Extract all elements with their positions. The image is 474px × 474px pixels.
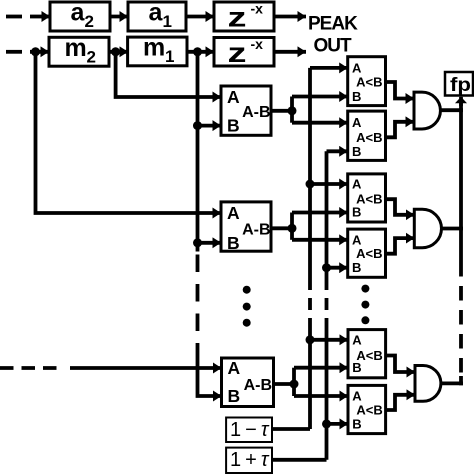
svg-text:-x: -x bbox=[251, 1, 264, 17]
svg-text:A<B: A<B bbox=[356, 348, 382, 363]
svg-text:A<B: A<B bbox=[356, 246, 382, 261]
svg-text:1: 1 bbox=[163, 12, 172, 31]
svg-text:B: B bbox=[228, 386, 241, 406]
svg-text:A: A bbox=[352, 389, 362, 404]
svg-text:A-B: A-B bbox=[242, 221, 270, 238]
svg-text:a: a bbox=[71, 0, 86, 27]
svg-text:z: z bbox=[228, 1, 247, 32]
svg-text:1: 1 bbox=[165, 47, 174, 66]
svg-text:A: A bbox=[227, 203, 240, 223]
svg-text:PEAK: PEAK bbox=[308, 13, 358, 34]
svg-text:B: B bbox=[227, 233, 240, 253]
svg-text:A: A bbox=[352, 232, 362, 247]
svg-text:A-B: A-B bbox=[244, 377, 272, 394]
svg-text:A: A bbox=[228, 358, 241, 378]
svg-text:A: A bbox=[352, 115, 362, 130]
svg-text:A<B: A<B bbox=[356, 403, 382, 418]
svg-text:B: B bbox=[352, 89, 361, 104]
svg-text:m: m bbox=[143, 34, 165, 62]
svg-text:2: 2 bbox=[87, 47, 96, 66]
svg-text:A<B: A<B bbox=[356, 192, 382, 207]
svg-text:1+τ: 1+τ bbox=[230, 449, 272, 471]
svg-text:-x: -x bbox=[251, 36, 264, 52]
svg-text:z: z bbox=[228, 37, 247, 68]
svg-text:A-B: A-B bbox=[242, 104, 270, 121]
svg-text:A<B: A<B bbox=[356, 130, 382, 145]
svg-text:A: A bbox=[227, 87, 240, 107]
svg-text:B: B bbox=[352, 260, 361, 275]
svg-text:A: A bbox=[352, 60, 362, 75]
svg-text:B: B bbox=[227, 116, 240, 136]
svg-text:m: m bbox=[65, 34, 87, 62]
svg-text:A<B: A<B bbox=[356, 75, 382, 90]
svg-text:2: 2 bbox=[85, 12, 94, 31]
svg-text:OUT: OUT bbox=[314, 35, 353, 56]
svg-text:A: A bbox=[352, 332, 362, 347]
svg-text:B: B bbox=[352, 416, 361, 431]
svg-text:fp: fp bbox=[450, 75, 471, 96]
svg-text:A: A bbox=[352, 177, 362, 192]
svg-text:B: B bbox=[352, 144, 361, 159]
svg-text:a: a bbox=[149, 0, 164, 27]
svg-text:1−τ: 1−τ bbox=[230, 419, 272, 441]
